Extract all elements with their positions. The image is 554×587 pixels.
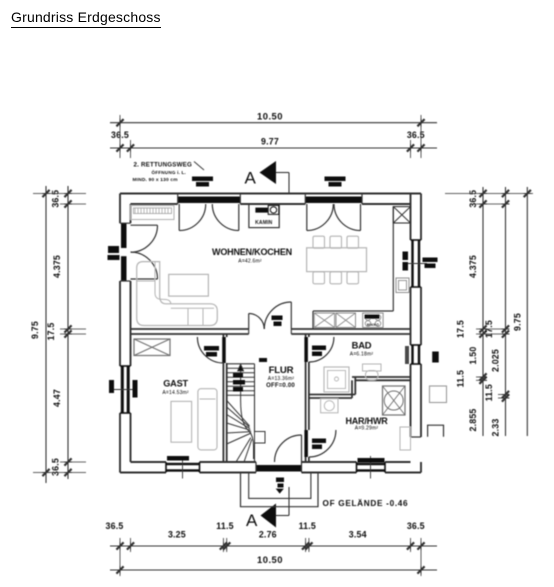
svg-text:OF GELÄNDE -0.46: OF GELÄNDE -0.46	[323, 498, 409, 508]
svg-text:17.5: 17.5	[46, 323, 56, 341]
svg-text:4.375: 4.375	[52, 255, 62, 278]
svg-text:KAMIN: KAMIN	[255, 220, 273, 226]
svg-text:36.5: 36.5	[51, 458, 61, 476]
svg-text:9.75: 9.75	[512, 313, 522, 331]
svg-text:WOHNEN/KOCHEN: WOHNEN/KOCHEN	[212, 247, 292, 257]
svg-text:17.5: 17.5	[456, 320, 466, 338]
svg-text:11.5: 11.5	[299, 521, 316, 531]
svg-text:36.5: 36.5	[106, 521, 124, 531]
svg-text:10.50: 10.50	[257, 554, 283, 565]
svg-text:4.47: 4.47	[52, 389, 62, 407]
svg-text:36.5: 36.5	[407, 130, 425, 140]
svg-text:A: A	[245, 169, 257, 188]
svg-text:2.76: 2.76	[259, 530, 277, 540]
svg-text:11.5: 11.5	[216, 521, 233, 531]
svg-text:MIKRO: MIKRO	[367, 323, 379, 327]
svg-text:2. RETTUNGSWEG: 2. RETTUNGSWEG	[134, 162, 193, 169]
svg-text:3.25: 3.25	[168, 530, 186, 540]
svg-text:A=13.36m²: A=13.36m²	[268, 376, 295, 382]
svg-text:36.5: 36.5	[407, 521, 425, 531]
svg-text:GAST: GAST	[163, 379, 188, 389]
svg-text:11.5: 11.5	[456, 370, 466, 387]
svg-text:MIND. 90 x 130 cm: MIND. 90 x 130 cm	[133, 177, 178, 183]
svg-text:36.5: 36.5	[468, 190, 478, 208]
svg-text:ÖFFNUNG i. L.: ÖFFNUNG i. L.	[152, 169, 187, 175]
svg-text:11.5: 11.5	[484, 384, 494, 401]
svg-text:36.5: 36.5	[51, 190, 61, 208]
svg-text:BAD: BAD	[352, 339, 372, 350]
svg-text:2.855: 2.855	[468, 408, 478, 431]
svg-text:9.77: 9.77	[261, 137, 279, 147]
svg-text:9.75: 9.75	[30, 321, 40, 339]
svg-text:A=6.18m²: A=6.18m²	[350, 352, 374, 358]
svg-text:10.50: 10.50	[257, 111, 283, 122]
svg-text:1.50: 1.50	[468, 347, 478, 365]
svg-text:A=14.53m²: A=14.53m²	[162, 390, 189, 396]
svg-text:2.33: 2.33	[490, 419, 500, 437]
svg-text:FLUR: FLUR	[269, 365, 294, 376]
svg-text:3.54: 3.54	[349, 530, 367, 540]
svg-text:A: A	[246, 511, 258, 530]
svg-text:HAR/HWR: HAR/HWR	[345, 416, 388, 426]
svg-text:2.025: 2.025	[490, 349, 500, 372]
svg-text:4.375: 4.375	[468, 255, 478, 278]
svg-text:A=9.29m²: A=9.29m²	[355, 426, 379, 432]
svg-text:OFF=0.00: OFF=0.00	[266, 383, 295, 389]
svg-text:A=42.6m²: A=42.6m²	[238, 259, 262, 265]
